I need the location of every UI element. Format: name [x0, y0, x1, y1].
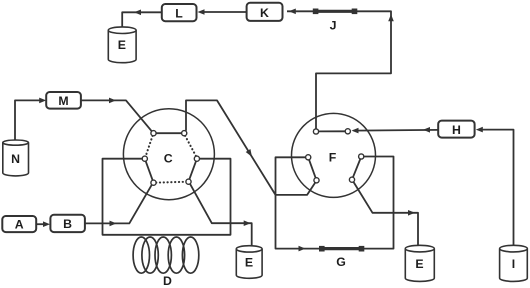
valve F ports (6)	[306, 129, 364, 183]
vessel E right	[405, 245, 434, 281]
wire H to F top-right port with two arrows	[354, 129, 439, 132]
coil D (5 loops)	[133, 237, 199, 273]
svg-text:L: L	[175, 7, 183, 21]
svg-text:E: E	[245, 255, 253, 269]
svg-text:K: K	[260, 6, 269, 20]
svg-text:N: N	[11, 152, 20, 166]
svg-text:A: A	[15, 218, 24, 232]
svg-text:D: D	[163, 274, 172, 288]
svg-text:E: E	[415, 257, 423, 271]
vessel E top	[108, 27, 136, 63]
wire I to H right side with arrow	[479, 130, 514, 246]
pump box K	[247, 3, 283, 21]
pump box L	[162, 4, 197, 21]
vessel E mid	[236, 246, 262, 279]
wire L to vessel E top, mid arrow	[122, 12, 162, 27]
wire junction to F bottom-left port	[276, 183, 316, 195]
svg-text:E: E	[118, 38, 126, 52]
wire C top-right port to junction near F (diagonal), mid arrow	[186, 100, 276, 194]
wire F left port to G loop (left/bottom/right) back to F right port	[276, 157, 394, 249]
svg-text:B: B	[63, 217, 72, 231]
valve C internal channel TL-L (dotted)	[146, 136, 153, 157]
svg-text:I: I	[512, 257, 515, 271]
vessel N	[3, 140, 29, 176]
svg-text:F: F	[329, 150, 337, 164]
valve C body circle	[123, 109, 214, 200]
svg-text:G: G	[336, 255, 346, 269]
wire F bottom-right port to vessel E right, arrow before corner	[353, 182, 418, 246]
valve C internal channel TL-TR (solid)	[156, 132, 182, 134]
valve C internal channel R-BR (solid)	[189, 161, 196, 179]
svg-text:J: J	[330, 19, 337, 33]
valve C internal channel BL-BR (dotted)	[156, 181, 186, 184]
valve F internal channel TL-TR (solid)	[319, 130, 346, 132]
valve C ports (6)	[142, 131, 199, 186]
arrow into K right edge	[289, 9, 296, 15]
column J (two end blocks + thick bar)	[313, 9, 319, 15]
valve C internal channel L-BL (solid)	[146, 161, 153, 180]
wire F top-left port up and over to K through J	[287, 11, 391, 129]
pump box M	[46, 92, 81, 109]
wire B to C bottom-left port, mid arrow	[85, 185, 152, 224]
svg-text:C: C	[164, 152, 173, 166]
arrow up on vertical to J	[388, 14, 394, 21]
pump box H	[438, 121, 474, 138]
valve F internal channel R-BR (solid)	[353, 159, 360, 177]
arrow on G line	[299, 246, 306, 252]
wire M to valve C top-left port, mid arrow	[81, 100, 152, 131]
svg-text:H: H	[452, 123, 461, 137]
wire C bottom-right port to vessel E mid, arrow before corner	[190, 184, 252, 246]
vessel I	[500, 245, 528, 281]
pump box B	[50, 215, 85, 232]
column G (two end blocks + thick bar)	[319, 246, 325, 252]
svg-text:M: M	[58, 94, 68, 108]
pump box A	[2, 216, 36, 232]
wire N to M with arrow	[15, 100, 41, 141]
wire K to L with arrow	[202, 11, 247, 13]
wire C left port through coil D to C right port	[103, 159, 231, 235]
wire A to B with arrow	[36, 223, 45, 225]
valve C internal channel TR-R (dotted)	[185, 136, 196, 157]
valve F internal channel L-BL (solid)	[309, 160, 316, 178]
valve F body circle	[292, 113, 376, 197]
